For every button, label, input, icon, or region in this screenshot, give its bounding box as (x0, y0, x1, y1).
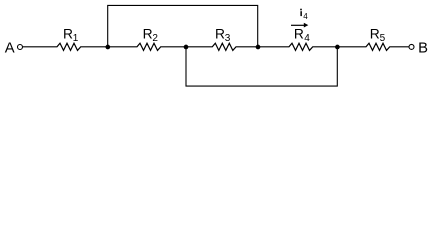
svg-text:5: 5 (380, 33, 386, 44)
svg-text:2: 2 (152, 33, 158, 44)
svg-text:4: 4 (303, 12, 308, 21)
svg-text:A: A (5, 40, 15, 56)
svg-text:R: R (294, 26, 304, 41)
svg-text:R: R (143, 26, 153, 41)
svg-text:R: R (370, 26, 380, 41)
svg-text:R: R (215, 26, 225, 41)
svg-text:1: 1 (73, 33, 79, 44)
svg-text:B: B (418, 41, 428, 57)
svg-text:4: 4 (304, 33, 310, 44)
svg-text:3: 3 (225, 33, 231, 44)
svg-text:R: R (63, 26, 73, 41)
